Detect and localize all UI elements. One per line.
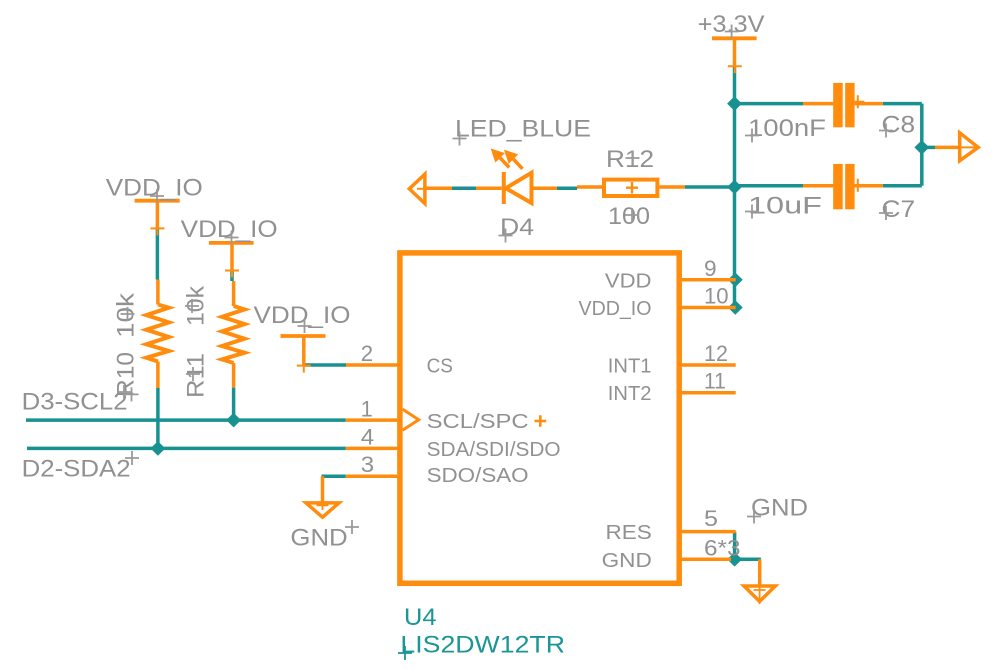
svg-text:SDA/SDI/SDO: SDA/SDI/SDO: [427, 439, 561, 461]
svg-text:R12: R12: [606, 146, 654, 173]
svg-text:LED_BLUE: LED_BLUE: [455, 116, 591, 143]
svg-text:12: 12: [704, 341, 728, 366]
svg-text:10uF: 10uF: [748, 193, 822, 220]
svg-text:100nF: 100nF: [748, 115, 826, 142]
svg-text:SCL/SPC: SCL/SPC: [427, 411, 529, 433]
svg-text:10: 10: [704, 284, 729, 309]
svg-text:R10: R10: [113, 352, 140, 397]
svg-text:10k: 10k: [113, 292, 140, 338]
svg-text:1: 1: [361, 397, 373, 422]
svg-text:CS: CS: [427, 356, 453, 378]
svg-text:GND: GND: [751, 495, 808, 522]
svg-text:SDO/SAO: SDO/SAO: [427, 465, 529, 487]
svg-text:2: 2: [361, 341, 373, 366]
svg-text:3: 3: [361, 452, 374, 477]
svg-text:VDD_IO: VDD_IO: [181, 216, 278, 243]
svg-text:VDD_IO: VDD_IO: [106, 174, 203, 201]
svg-text:VDD_IO: VDD_IO: [579, 298, 652, 320]
svg-text:4: 4: [361, 424, 374, 449]
svg-text:6*3: 6*3: [704, 535, 741, 560]
svg-text:GND: GND: [602, 550, 652, 572]
svg-text:R11: R11: [183, 353, 210, 398]
svg-text:11: 11: [704, 369, 726, 394]
svg-text:INT2: INT2: [608, 383, 652, 405]
svg-text:D2-SDA2: D2-SDA2: [22, 455, 131, 482]
svg-text:5: 5: [704, 506, 718, 531]
svg-text:U4: U4: [404, 604, 437, 631]
svg-text:VDD_IO: VDD_IO: [254, 302, 351, 329]
svg-text:RES: RES: [606, 522, 652, 544]
svg-text:INT1: INT1: [608, 356, 652, 378]
svg-text:9: 9: [704, 256, 717, 281]
svg-text:100: 100: [608, 203, 650, 230]
svg-text:GND: GND: [290, 525, 347, 552]
svg-text:LIS2DW12TR: LIS2DW12TR: [400, 632, 565, 659]
svg-text:VDD: VDD: [605, 270, 652, 292]
